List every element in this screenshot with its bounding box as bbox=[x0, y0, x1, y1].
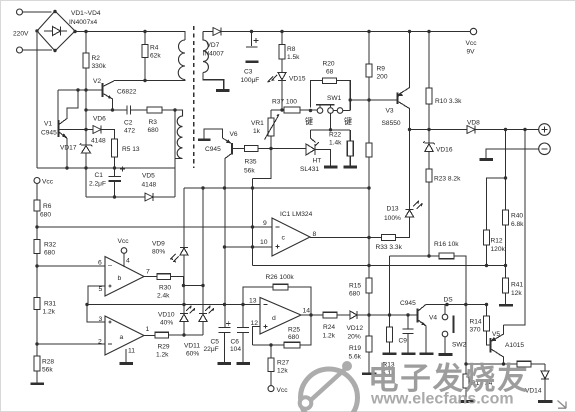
transistor V4 bbox=[417, 309, 419, 323]
svg-text:A1015: A1015 bbox=[505, 342, 524, 349]
resistor R28 bbox=[34, 356, 40, 371]
svg-text:C6: C6 bbox=[231, 339, 240, 346]
svg-text:VR1: VR1 bbox=[251, 120, 264, 127]
svg-text:V3: V3 bbox=[386, 108, 394, 115]
svg-text:56k: 56k bbox=[42, 367, 53, 374]
diode VD14 bbox=[544, 364, 546, 371]
svg-text:10: 10 bbox=[260, 239, 268, 246]
svg-text:R29: R29 bbox=[158, 344, 170, 351]
LED VD10 bbox=[180, 313, 188, 315]
LED D13 column from collector wire bbox=[409, 130, 411, 210]
wire R9 to R11 bbox=[368, 77, 370, 143]
wire d output y=315 bbox=[301, 314, 323, 316]
resistor R18 bbox=[517, 361, 531, 367]
svg-text:VD12: VD12 bbox=[347, 325, 364, 332]
svg-text:R27: R27 bbox=[277, 360, 289, 367]
ground V4 bbox=[420, 352, 434, 355]
wire minus to ground bbox=[486, 149, 539, 159]
ground R19 bbox=[362, 372, 377, 375]
svg-text:SW2: SW2 bbox=[452, 342, 467, 349]
columns x=505 x=525 battery feed bbox=[487, 130, 506, 231]
svg-text:R25: R25 bbox=[288, 327, 300, 334]
svg-text:VD17: VD17 bbox=[60, 145, 77, 152]
svg-text:1k: 1k bbox=[253, 128, 261, 135]
svg-text:60%: 60% bbox=[186, 351, 199, 358]
svg-text:20%: 20% bbox=[348, 334, 361, 341]
resistor R30 bbox=[157, 274, 171, 280]
transistor V1 bbox=[58, 120, 60, 137]
wire V4 collector y=304.5 bbox=[426, 304, 487, 306]
resistor R37 bbox=[284, 107, 300, 113]
resistor R8 bbox=[281, 32, 283, 45]
svg-text:R41: R41 bbox=[511, 282, 523, 289]
resistor R23 bbox=[428, 152, 430, 170]
resistor R40 bbox=[505, 178, 507, 210]
capacitor C9 bbox=[407, 315, 409, 329]
diode VD7 bbox=[213, 28, 221, 36]
svg-text:VD11: VD11 bbox=[184, 343, 200, 350]
wire y=335 VD bottoms bbox=[169, 334, 204, 336]
junction dots left block bbox=[35, 10, 176, 199]
LED VD11 bbox=[199, 313, 207, 315]
regulator HT SL431 bbox=[311, 130, 316, 143]
ground R22 bbox=[344, 166, 358, 169]
svg-text:680: 680 bbox=[148, 127, 159, 134]
svg-text:680: 680 bbox=[44, 250, 55, 257]
svg-text:3: 3 bbox=[99, 316, 103, 323]
bottom loop R25 bbox=[253, 344, 285, 346]
svg-text:VD1~VD4: VD1~VD4 bbox=[71, 10, 101, 17]
svg-text:V1: V1 bbox=[44, 121, 52, 128]
ground op-amp a pin11 bbox=[125, 349, 127, 363]
resistor R3 bbox=[147, 107, 162, 113]
svg-text:Vcc: Vcc bbox=[466, 40, 478, 47]
svg-text:R6: R6 bbox=[43, 203, 52, 210]
capacitor C6 column bbox=[242, 305, 244, 328]
resistor R11 bbox=[366, 143, 372, 157]
svg-text:62k: 62k bbox=[150, 53, 161, 60]
svg-text:13: 13 bbox=[249, 298, 257, 305]
svg-text:HT: HT bbox=[313, 158, 322, 165]
svg-text:680: 680 bbox=[40, 212, 51, 219]
resistor R15 on column bbox=[366, 278, 372, 293]
resistor R20 parallel loop bbox=[337, 81, 351, 111]
svg-text:12: 12 bbox=[251, 320, 259, 327]
diode VD8 bbox=[467, 126, 475, 134]
svg-text:C945: C945 bbox=[41, 130, 57, 137]
transformer primary winding lower bbox=[175, 110, 183, 159]
pot VR1 bbox=[270, 110, 272, 118]
wire SW1 mid to R22 box bbox=[330, 113, 332, 130]
svg-text:5: 5 bbox=[99, 286, 103, 293]
svg-text:VD8: VD8 bbox=[467, 120, 480, 127]
svg-text:R24: R24 bbox=[323, 324, 335, 331]
wire V1 base column bbox=[57, 90, 59, 120]
terminal Vcc divider bbox=[34, 178, 40, 184]
svg-text:1.2k: 1.2k bbox=[323, 333, 336, 340]
op-amp a bbox=[105, 316, 144, 355]
Vcc pin4 op-amp b bbox=[121, 248, 127, 254]
resistor R5 bbox=[112, 139, 118, 157]
wire terminal-top to bridge bbox=[23, 11, 52, 13]
svg-text:9V: 9V bbox=[467, 49, 476, 56]
svg-text:C9: C9 bbox=[399, 338, 408, 345]
svg-text:Vcc: Vcc bbox=[118, 238, 130, 245]
column x=466 lower bbox=[465, 305, 467, 375]
svg-text:680: 680 bbox=[349, 291, 360, 298]
op-amp c bbox=[272, 218, 310, 256]
svg-text:键: 键 bbox=[344, 116, 352, 126]
wire op-amp a output bbox=[144, 335, 155, 337]
zener VD16 bbox=[428, 130, 430, 144]
svg-text:C5: C5 bbox=[211, 339, 220, 346]
ground R13 bbox=[383, 352, 397, 355]
svg-text:120k: 120k bbox=[491, 246, 506, 253]
svg-text:Vcc: Vcc bbox=[42, 179, 54, 186]
svg-text:1.4k: 1.4k bbox=[329, 140, 342, 147]
svg-text:4: 4 bbox=[126, 258, 130, 265]
svg-text:330k: 330k bbox=[92, 63, 107, 70]
transformer primary winding upper bbox=[178, 40, 185, 80]
op-amp d bbox=[260, 298, 301, 335]
resistor R17 bbox=[463, 374, 469, 388]
svg-text:R5 13: R5 13 bbox=[122, 146, 140, 153]
svg-text:R31: R31 bbox=[44, 301, 56, 308]
wire HT ref y=149.5 bbox=[258, 148, 306, 150]
ground C9 bbox=[402, 352, 416, 355]
svg-text:1: 1 bbox=[146, 326, 150, 333]
svg-text:S8550: S8550 bbox=[382, 120, 401, 127]
wire pin12 loop bbox=[253, 327, 261, 346]
svg-text:C1: C1 bbox=[95, 172, 104, 179]
wire pin5 to bus bbox=[88, 286, 105, 305]
op-amp b bbox=[105, 257, 144, 297]
column x=203 bbox=[202, 188, 204, 314]
wire V3 collector to VD8 y=129.5 bbox=[410, 129, 468, 131]
resistor R12 bbox=[484, 230, 490, 245]
zener VD17 bbox=[80, 144, 93, 147]
wire top rail DC+ to primary bbox=[75, 32, 185, 41]
resistor R27 to Vcc bbox=[270, 345, 272, 358]
wire R2 to VD17 column bbox=[85, 68, 87, 145]
svg-text:12k: 12k bbox=[277, 368, 288, 375]
svg-text:68: 68 bbox=[326, 69, 334, 76]
column x=525 to V5 emitter bbox=[504, 130, 526, 326]
transistor V6 with drive hook bbox=[198, 138, 211, 141]
svg-text:R40: R40 bbox=[511, 213, 523, 220]
diode VD12 bbox=[350, 311, 357, 319]
svg-text:C6822: C6822 bbox=[117, 89, 137, 96]
rail y=266 pin6 bbox=[37, 265, 105, 267]
transformer secondary winding upper bbox=[203, 32, 208, 73]
resistor R2 bbox=[85, 32, 87, 54]
ground VD14 bbox=[538, 400, 553, 403]
wire terminal-bottom to bridge bbox=[23, 49, 53, 51]
svg-text:1.2k: 1.2k bbox=[156, 352, 169, 359]
resistor R31 bbox=[34, 298, 40, 310]
svg-text:VD9: VD9 bbox=[152, 241, 165, 248]
svg-text:9: 9 bbox=[263, 220, 267, 227]
resistor R33 bbox=[382, 235, 396, 241]
resistor R26 bbox=[273, 284, 288, 290]
feedback R26 loop bbox=[243, 287, 273, 305]
ground R17 bbox=[459, 400, 475, 403]
bus wire y=304.5 bbox=[87, 304, 260, 306]
rail y=188 bbox=[184, 187, 369, 189]
LED VD9 column bbox=[183, 188, 185, 247]
wire c output y=237.5 bbox=[310, 237, 382, 239]
svg-text:R4: R4 bbox=[150, 45, 159, 52]
svg-text:R22: R22 bbox=[329, 132, 341, 139]
junction dots measurement block bbox=[35, 186, 507, 345]
svg-text:D13: D13 bbox=[387, 206, 399, 213]
svg-text:14: 14 bbox=[303, 308, 311, 315]
wire op-amp b output R30 bbox=[144, 276, 157, 278]
ground R28 bbox=[31, 382, 45, 385]
terminal Vcc 9V bbox=[470, 28, 476, 34]
svg-text:www.elecfans.com: www.elecfans.com bbox=[370, 391, 514, 408]
svg-text:370: 370 bbox=[470, 327, 481, 334]
svg-text:80%: 80% bbox=[152, 249, 165, 256]
column x=389.5 to R13 bbox=[389, 256, 391, 327]
rail y=168 bbox=[37, 167, 175, 169]
svg-text:1.5k: 1.5k bbox=[287, 54, 300, 61]
column x=175 bbox=[174, 110, 176, 197]
terminal plus bbox=[539, 124, 551, 136]
svg-text:Vcc: Vcc bbox=[277, 387, 289, 394]
svg-text:R14: R14 bbox=[470, 319, 482, 326]
svg-text:VD15: VD15 bbox=[289, 76, 306, 83]
svg-text:6.8k: 6.8k bbox=[511, 221, 524, 228]
svg-text:R9: R9 bbox=[377, 66, 386, 73]
svg-text:680: 680 bbox=[288, 334, 299, 341]
svg-text:5.6k: 5.6k bbox=[349, 354, 362, 361]
svg-text:V4: V4 bbox=[429, 315, 437, 322]
resistor R25 bbox=[284, 342, 300, 348]
capacitor C3 bbox=[251, 32, 253, 47]
svg-text:472: 472 bbox=[124, 128, 135, 135]
svg-text:C2: C2 bbox=[124, 120, 133, 127]
svg-text:R23 8.2k: R23 8.2k bbox=[434, 176, 461, 183]
switch SW2 bbox=[444, 305, 446, 315]
rail y=31.5 secondary side bbox=[203, 31, 213, 33]
capacitor C5 column bbox=[219, 326, 231, 328]
svg-text:1.2k: 1.2k bbox=[43, 309, 56, 316]
svg-text:2.2μF: 2.2μF bbox=[89, 181, 106, 188]
terminal Vcc bottom bbox=[268, 386, 274, 392]
svg-text:c: c bbox=[282, 235, 286, 242]
svg-text:C945: C945 bbox=[400, 300, 416, 307]
svg-text:104: 104 bbox=[230, 346, 241, 353]
junction dots lower right bbox=[243, 287, 505, 366]
svg-text:56k: 56k bbox=[244, 168, 255, 175]
wire primary bottom y=80 bbox=[115, 80, 186, 81]
wire V2 base y=90 bbox=[58, 89, 103, 91]
svg-text:R33 3.3k: R33 3.3k bbox=[376, 244, 403, 251]
wire R5 to C1 bbox=[114, 157, 116, 176]
svg-text:a: a bbox=[120, 334, 124, 341]
svg-text:IC1 LM324: IC1 LM324 bbox=[280, 211, 313, 218]
rail y=344 pin2 bbox=[37, 343, 105, 345]
wire y=364 bbox=[466, 363, 517, 365]
transformer core dashed bbox=[193, 26, 195, 168]
ground secondary bbox=[216, 89, 230, 92]
terminal 220V top bbox=[17, 9, 23, 15]
svg-text:100%: 100% bbox=[384, 215, 401, 222]
junction dots mid block bbox=[250, 30, 431, 150]
svg-text:2: 2 bbox=[98, 339, 102, 346]
capacitor C1 bbox=[109, 176, 122, 178]
svg-text:b: b bbox=[118, 275, 122, 282]
svg-text:R32: R32 bbox=[44, 242, 56, 249]
svg-text:11: 11 bbox=[128, 348, 135, 355]
svg-text:R20: R20 bbox=[323, 61, 335, 68]
resistor R16 bbox=[439, 253, 454, 259]
svg-text:40%: 40% bbox=[160, 320, 173, 327]
wire pin3 to bus bbox=[87, 305, 105, 323]
svg-text:DS: DS bbox=[444, 297, 454, 304]
svg-text:22μF: 22μF bbox=[204, 346, 219, 353]
svg-text:4148: 4148 bbox=[142, 182, 157, 189]
svg-text:R35: R35 bbox=[245, 159, 257, 166]
wire y=265.5 reference bus bbox=[253, 265, 506, 267]
rail y=227 to pin9 bbox=[37, 226, 272, 228]
svg-text:IN4007x4: IN4007x4 bbox=[69, 19, 98, 26]
resistor R41 bbox=[505, 266, 507, 279]
resistor R29 bbox=[155, 332, 169, 338]
ground HT bbox=[324, 166, 338, 169]
svg-text:R30: R30 bbox=[159, 285, 171, 292]
svg-text:R10 3.3k: R10 3.3k bbox=[435, 98, 462, 105]
resistor R10 bbox=[428, 32, 430, 89]
wire secondary bottom to ground bbox=[203, 73, 224, 90]
wire SW1 to V3 base y=100 bbox=[350, 99, 397, 101]
wire y=110 R37 row bbox=[271, 109, 317, 111]
resistor R13 bbox=[387, 327, 393, 342]
bridge rectifier VD1~VD4 bbox=[37, 11, 75, 51]
svg-text:键: 键 bbox=[305, 116, 313, 126]
corner mark bbox=[558, 401, 567, 409]
watermark logo circles bbox=[300, 361, 358, 412]
svg-text:V5: V5 bbox=[492, 331, 500, 338]
svg-text:R16 10k: R16 10k bbox=[434, 241, 459, 248]
column x=252.5 VR1 sense bbox=[252, 179, 254, 266]
diode VD6 bbox=[60, 129, 94, 131]
switch SW1 bbox=[317, 108, 323, 114]
svg-text:220V: 220V bbox=[13, 31, 29, 38]
ground SW2 bbox=[439, 353, 453, 356]
svg-text:R26 100k: R26 100k bbox=[266, 274, 295, 281]
svg-text:C945: C945 bbox=[205, 146, 221, 153]
svg-text:R19: R19 bbox=[349, 345, 361, 352]
svg-text:C3: C3 bbox=[244, 69, 253, 76]
capacitor C2 bbox=[127, 106, 131, 115]
resistor R14 bbox=[486, 305, 488, 317]
svg-text:VD5: VD5 bbox=[142, 173, 155, 180]
resistor R22 bbox=[349, 130, 351, 141]
transistor V2 bbox=[102, 83, 104, 97]
svg-text:VD6: VD6 bbox=[93, 116, 106, 123]
svg-text:d: d bbox=[272, 315, 276, 322]
wire y=285.5 bbox=[184, 285, 204, 287]
svg-text:12k: 12k bbox=[511, 290, 522, 297]
svg-text:R12: R12 bbox=[491, 238, 503, 245]
svg-text:7: 7 bbox=[146, 269, 150, 276]
svg-text:R3: R3 bbox=[149, 119, 158, 126]
diode VD5 bbox=[145, 193, 153, 201]
rail R22 box y=129.8 bbox=[311, 129, 351, 131]
svg-text:VD10: VD10 bbox=[158, 312, 175, 319]
watermark text bbox=[368, 362, 530, 408]
rail y=197 VD5 bbox=[86, 196, 145, 198]
svg-text:SW1: SW1 bbox=[327, 95, 342, 102]
wire y=110 C2 R3 bbox=[86, 109, 175, 111]
svg-text:R15: R15 bbox=[349, 283, 361, 290]
svg-text:R28: R28 bbox=[42, 359, 54, 366]
svg-text:SL431: SL431 bbox=[300, 166, 319, 173]
svg-text:V2: V2 bbox=[93, 78, 101, 85]
svg-text:IN4007: IN4007 bbox=[203, 51, 225, 58]
resistor R9 bbox=[368, 32, 370, 65]
resistor R4 bbox=[144, 32, 146, 45]
svg-text:VD7: VD7 bbox=[207, 42, 220, 49]
terminal minus bbox=[539, 143, 551, 155]
wire pin10 row bbox=[225, 246, 273, 248]
wire bridge left arm down bbox=[36, 33, 38, 168]
svg-text:R37 100: R37 100 bbox=[272, 99, 297, 106]
resistor R6 bbox=[34, 200, 40, 211]
transistor V3 S8550 bbox=[397, 93, 399, 105]
svg-text:R8: R8 bbox=[287, 46, 296, 53]
transistor V5 A1015 bbox=[490, 338, 492, 353]
svg-text:R2: R2 bbox=[92, 55, 101, 62]
ground minus bbox=[480, 158, 494, 161]
resistor R35 bbox=[245, 146, 259, 152]
LED VD15 bbox=[281, 59, 283, 73]
svg-text:200: 200 bbox=[377, 74, 388, 81]
terminal 220V bottom bbox=[17, 47, 23, 53]
svg-text:4148: 4148 bbox=[91, 138, 106, 145]
resistor R24 bbox=[323, 312, 337, 318]
ground R41 bbox=[499, 304, 513, 307]
wire R16 row y=256 bbox=[390, 255, 440, 257]
svg-text:8: 8 bbox=[313, 231, 317, 238]
svg-text:VD16: VD16 bbox=[436, 147, 453, 154]
svg-text:V6: V6 bbox=[230, 131, 238, 138]
svg-text:6: 6 bbox=[98, 260, 102, 267]
svg-text:100μF: 100μF bbox=[241, 77, 260, 84]
resistor R32 bbox=[34, 240, 40, 254]
resistor R19 bbox=[368, 315, 370, 336]
svg-text:2.4k: 2.4k bbox=[157, 293, 170, 300]
